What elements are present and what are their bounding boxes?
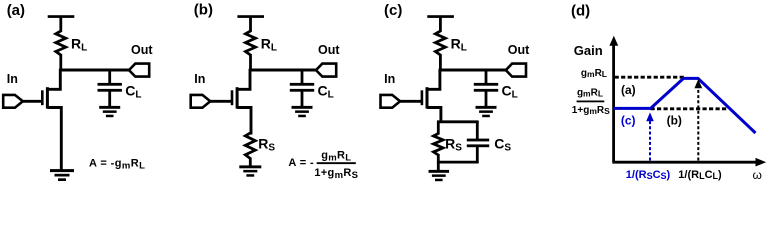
black dashed arrow at 1/(RLCL) (697, 89, 699, 161)
wire RL to output node (c) (439, 54, 442, 71)
transistor M1 channel bar (c) (426, 87, 429, 108)
resistor RS (b) (245, 133, 255, 159)
svg-text:1+gmRS: 1+gmRS (314, 167, 358, 181)
wire node to CL (a) (108, 69, 111, 84)
wire node to CL (c) (485, 69, 488, 84)
input port In (b) (191, 95, 211, 108)
transistor M1 source wire (a) (47, 108, 61, 171)
svg-text:In: In (384, 72, 395, 86)
output node wire (b) (249, 69, 317, 72)
capacitor CL bottom plate (b) (290, 89, 314, 92)
lower dashed level line (651, 107, 729, 110)
y axis arrowhead (609, 36, 618, 46)
svg-text:Out: Out (131, 43, 153, 57)
transistor M1 drain wire (c) (427, 69, 440, 90)
wire In to gate (b) (210, 100, 233, 103)
svg-text:(b): (b) (667, 114, 682, 128)
ground below CL (a) (99, 106, 120, 109)
capacitor CL top plate (a) (98, 83, 122, 86)
wire CL to ground (a) (108, 91, 111, 107)
RS-CS network top wire (c) (437, 120, 479, 123)
wire network to ground (c) (437, 162, 440, 170)
y axis (612, 45, 615, 162)
input port In (a) (3, 95, 23, 108)
svg-text:Gain: Gain (574, 43, 603, 58)
svg-text:gmRL: gmRL (581, 68, 607, 79)
svg-text:In: In (194, 72, 205, 86)
wire CL to ground (c) (485, 91, 488, 107)
transistor M1 channel bar (b) (236, 87, 239, 108)
output node wire (a) (60, 69, 131, 72)
resistor RS (c) (434, 134, 444, 156)
input port In (c) (381, 95, 401, 108)
wire RL to output node (b) (249, 54, 252, 71)
transistor M1 drain wire (b) (237, 69, 250, 90)
VDD supply rail bar (b) (237, 15, 264, 18)
ground below RS (b) (239, 165, 261, 168)
transistor M1 source wire (c) (427, 108, 441, 124)
transistor M1 gate bar (c) (421, 90, 424, 105)
ground below CL (b) (292, 106, 313, 109)
equation fraction bar (b) (317, 162, 356, 164)
wire VDD to RL (a) (59, 17, 62, 33)
resistor RL (c) (435, 31, 445, 55)
resistor RL (a) (56, 31, 66, 55)
ground main (a) (50, 169, 74, 172)
output port (b) (316, 64, 336, 77)
svg-text:Out: Out (318, 43, 340, 57)
wire node to CL (b) (301, 69, 304, 84)
wire In to gate (c) (400, 100, 423, 103)
svg-text:1/(RLCL): 1/(RLCL) (678, 169, 722, 181)
wire to RS (c) (437, 121, 440, 135)
wire CS top (c) (476, 121, 479, 140)
wire CL to ground (b) (301, 91, 304, 107)
transistor M1 source wire (b) (237, 108, 251, 135)
capacitor CL bottom plate (a) (98, 89, 122, 92)
transistor M1 drain wire (a) (47, 69, 60, 90)
transistor M1 gate bar (a) (41, 90, 44, 105)
wire RL to output node (a) (59, 54, 62, 71)
svg-text:(d): (d) (571, 2, 590, 19)
wire VDD to RL (b) (249, 17, 252, 33)
svg-text:(b): (b) (194, 2, 213, 19)
wire In to gate (a) (23, 100, 44, 103)
gain curve (blue) (613, 78, 756, 133)
capacitor CL bottom plate (c) (474, 89, 498, 92)
svg-text:gmRL: gmRL (321, 150, 351, 164)
svg-text:(c): (c) (384, 2, 402, 19)
svg-text:A = -gmRL: A = -gmRL (89, 158, 145, 172)
output port (c) (506, 64, 526, 77)
svg-text:(a): (a) (621, 83, 636, 97)
svg-text:1+gmRS: 1+gmRS (572, 105, 610, 116)
svg-text:A = -: A = - (288, 157, 314, 169)
svg-text:(a): (a) (7, 2, 25, 19)
svg-text:Out: Out (508, 43, 530, 57)
transistor M1 gate bar (b) (231, 90, 234, 105)
capacitor CL top plate (c) (474, 83, 498, 86)
capacitor CL top plate (b) (290, 83, 314, 86)
wire VDD to RL (c) (439, 17, 442, 33)
transistor M1 channel bar (a) (46, 87, 49, 108)
fraction bar (left) (577, 101, 605, 103)
blue dashed arrow at 1/(RSCS) (649, 121, 651, 161)
upper dashed level line (615, 76, 685, 79)
output node wire (c) (439, 69, 507, 72)
ground below network (c) (429, 170, 450, 173)
resistor RL (b) (246, 31, 256, 55)
wire RS to bottom (c) (437, 154, 440, 163)
x axis (612, 161, 757, 164)
capacitor CS bottom plate (c) (467, 144, 489, 147)
VDD supply rail bar (c) (427, 15, 454, 18)
x axis arrowhead (756, 158, 767, 167)
wire RS to ground (b) (249, 158, 252, 167)
RS-CS network bottom wire (c) (437, 161, 479, 164)
svg-text:ω: ω (753, 168, 762, 182)
capacitor CS top plate (c) (467, 139, 489, 142)
svg-text:gmRL: gmRL (577, 88, 603, 99)
svg-text:1/(RSCS): 1/(RSCS) (626, 169, 671, 181)
svg-text:In: In (7, 72, 18, 86)
svg-text:(c): (c) (621, 113, 636, 127)
wire CS bottom (c) (476, 147, 479, 164)
VDD supply rail bar (a) (48, 15, 75, 18)
output port (a) (129, 64, 149, 77)
ground below CL (c) (476, 106, 497, 109)
